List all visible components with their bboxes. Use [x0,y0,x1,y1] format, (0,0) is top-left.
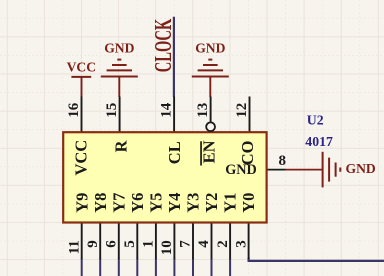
svg-text:4: 4 [196,240,212,248]
svg-text:1: 1 [141,240,157,248]
svg-text:7: 7 [178,240,194,248]
svg-text:GND: GND [104,40,134,55]
svg-text:R: R [112,139,131,152]
svg-text:12: 12 [234,103,250,118]
svg-text:14: 14 [159,102,175,118]
svg-text:Y0: Y0 [239,193,258,213]
svg-text:Y7: Y7 [109,193,128,213]
svg-text:16: 16 [66,102,82,118]
svg-text:VCC: VCC [67,59,96,74]
svg-text:GND: GND [195,40,225,55]
svg-text:Y3: Y3 [184,193,203,213]
svg-text:Y9: Y9 [72,193,91,213]
svg-text:8: 8 [279,153,287,169]
svg-text:2: 2 [215,240,231,248]
svg-text:Y6: Y6 [128,193,147,213]
svg-text:Y2: Y2 [202,193,221,213]
svg-text:5: 5 [122,240,138,248]
svg-text:VCC: VCC [71,140,90,176]
svg-text:15: 15 [104,103,120,118]
svg-text:Y5: Y5 [147,193,166,213]
svg-text:Y8: Y8 [91,193,110,213]
svg-text:CL: CL [165,141,184,164]
svg-text:11: 11 [66,240,82,254]
svg-text:13: 13 [195,103,211,118]
svg-text:EN: EN [200,140,219,163]
svg-text:Y1: Y1 [221,193,240,213]
svg-text:4017: 4017 [305,134,333,149]
svg-text:Y4: Y4 [165,193,184,213]
svg-text:9: 9 [85,240,101,248]
svg-text:GND: GND [225,162,257,178]
svg-text:GND: GND [346,161,376,176]
svg-text:6: 6 [104,240,120,248]
svg-text:CLOCK: CLOCK [151,19,177,73]
svg-text:3: 3 [233,240,249,248]
svg-text:U2: U2 [307,113,324,128]
svg-text:10: 10 [159,240,175,255]
